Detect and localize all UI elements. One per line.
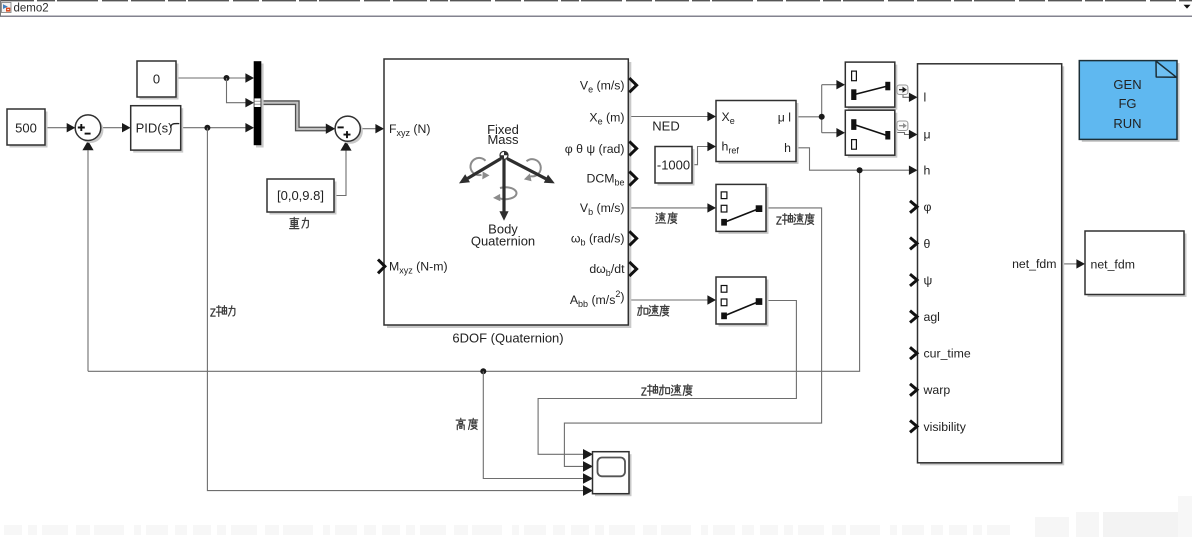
sum S1 — [78, 117, 104, 143]
tab left border — [0, 0, 2, 16]
svg-text:Mxyz (N-m): Mxyz (N-m) — [389, 260, 448, 276]
svg-text:φ θ ψ (rad): φ θ ψ (rad) — [565, 142, 625, 156]
svg-text:net_fdm: net_fdm — [1091, 257, 1135, 271]
controller PID(s) — [133, 108, 183, 152]
badge signal conversion 2 — [897, 121, 908, 131]
svg-text:φ: φ — [924, 200, 932, 214]
node after Constant0 — [224, 75, 230, 81]
svg-text:FG: FG — [1118, 96, 1136, 111]
model icon — [2, 3, 12, 13]
selector Sel2 (acceleration) — [719, 280, 769, 327]
label z-axis acceleration — [642, 384, 693, 395]
wire selector4 to port mu — [895, 133, 910, 135]
svg-text:PID(s): PID(s) — [136, 120, 173, 135]
svg-text:[0,0,9.8]: [0,0,9.8] — [277, 188, 324, 203]
node feedback rail split — [480, 368, 486, 374]
wire node to Mux in2 — [227, 78, 247, 103]
svg-text:Ve (m/s): Ve (m/s) — [580, 78, 625, 94]
wire rail node to scope in3 — [483, 371, 583, 478]
svg-text:0: 0 — [153, 72, 160, 87]
svg-text:Xe (m): Xe (m) — [589, 110, 624, 126]
svg-text:demo2: demo2 — [14, 3, 49, 15]
wire 6DOF Vb to selector1 — [628, 207, 707, 209]
dropdown triangle — [1184, 5, 1191, 9]
badge signal conversion 1 — [897, 85, 908, 95]
wire feedback to Sum1 minus — [87, 150, 89, 371]
wire Sum2 to 6DOF Fxyz — [360, 128, 375, 130]
wire selector2 to scope in1 — [538, 301, 796, 455]
SECTION: blocks-left — [7, 61, 680, 215]
node after PID — [204, 125, 210, 131]
constant -1000 — [658, 149, 695, 186]
svg-text:μ: μ — [924, 128, 931, 142]
wire 500 to Sum1 — [45, 127, 68, 129]
wire 6DOF Abb to selector2 — [628, 299, 707, 301]
selector Sel3 (longitude) — [848, 65, 898, 110]
svg-text:Fxyz (N): Fxyz (N) — [389, 122, 431, 138]
svg-text:ψ: ψ — [924, 273, 933, 287]
svg-text:NED: NED — [652, 118, 679, 133]
mux M1 — [256, 64, 264, 148]
wire 6DOF Xe to FlatEarth — [628, 116, 707, 118]
icon pivot — [500, 151, 508, 159]
block net_fdm sink — [1088, 234, 1187, 298]
selector Sel1 (velocity) — [719, 187, 769, 234]
wire PID node to scope in4 — [207, 128, 583, 491]
scope block — [595, 454, 632, 496]
svg-text:6DOF (Quaternion): 6DOF (Quaternion) — [452, 330, 563, 345]
block Pack net_fdm — [920, 66, 1064, 465]
svg-text:h: h — [924, 164, 931, 178]
wire selector1 to scope in2 — [564, 208, 821, 458]
svg-text:Quaternion: Quaternion — [471, 234, 535, 249]
svg-text:Mass: Mass — [487, 132, 519, 147]
svg-text:GEN: GEN — [1113, 77, 1141, 92]
SECTION: right — [910, 61, 1187, 466]
selector Sel4 (latitude) — [848, 113, 898, 158]
svg-text:warp: warp — [923, 383, 951, 397]
svg-text:visibility: visibility — [924, 420, 967, 434]
svg-text:Vb (m/s): Vb (m/s) — [580, 201, 625, 217]
icon rotation arc bottom — [498, 187, 516, 199]
wire feedback rail — [88, 170, 860, 371]
block Flat Earth to LLA — [719, 103, 799, 164]
top toolbar remnant dashes — [0, 0, 1192, 2]
wire gravity to Sum2 — [334, 151, 346, 196]
wire PID to Mux in3 — [181, 127, 246, 129]
icon rotation arc right — [527, 159, 541, 176]
wire Sum1 to PID — [101, 127, 123, 129]
block 6DOF (Quaternion) — [387, 62, 631, 328]
node mu-l split — [819, 114, 825, 120]
bus wire Mux to Sum2 — [261, 103, 327, 129]
label z-axis force — [211, 306, 235, 317]
icon rotation arc left — [470, 158, 485, 175]
SECTION: watermark — [4, 496, 1192, 537]
label gravity (zhongli) — [290, 217, 309, 228]
label acceleration (jiasudu) — [638, 305, 669, 316]
tab separator line — [0, 15, 1192, 17]
SECTION: middle — [593, 62, 908, 496]
port Mxyz chevron — [378, 260, 385, 274]
svg-text:net_fdm: net_fdm — [1012, 257, 1056, 271]
label z-axis velocity — [777, 213, 814, 224]
constant 0 — [140, 64, 179, 100]
SECTION: sixdof — [378, 59, 637, 345]
sum S2 — [338, 119, 363, 144]
svg-text:ωb (rad/s): ωb (rad/s) — [571, 232, 625, 248]
wire pack to net_fdm block — [1062, 263, 1077, 265]
wire h to port h and down — [796, 148, 909, 170]
svg-text:500: 500 — [15, 121, 37, 136]
svg-text:cur_time: cur_time — [924, 347, 971, 361]
svg-text:RUN: RUN — [1113, 116, 1141, 131]
wire -1000 to href — [692, 147, 708, 165]
block Generate Run Script (GEN FG RUN) — [1079, 61, 1179, 142]
node h split — [857, 167, 863, 173]
svg-text:-1000: -1000 — [657, 158, 690, 173]
label height (gaodu) — [456, 418, 477, 429]
icon arrows — [468, 159, 547, 213]
svg-text:μ l: μ l — [778, 111, 791, 125]
SECTION: tabbar — [0, 0, 1192, 16]
SECTION: wires — [45, 73, 1085, 496]
svg-text:θ: θ — [924, 237, 931, 251]
svg-text:h: h — [784, 141, 791, 155]
wire mu-l to selectors — [796, 85, 837, 133]
wire Constant0 to Mux in1 — [176, 77, 246, 79]
svg-text:l: l — [924, 90, 927, 104]
constant 500 — [10, 112, 48, 148]
constant gravity [0,0,9.8] — [270, 182, 337, 215]
label velocity (sudu) — [656, 212, 677, 223]
wire selector3 to port l — [895, 86, 910, 97]
svg-text:agl: agl — [924, 310, 940, 324]
